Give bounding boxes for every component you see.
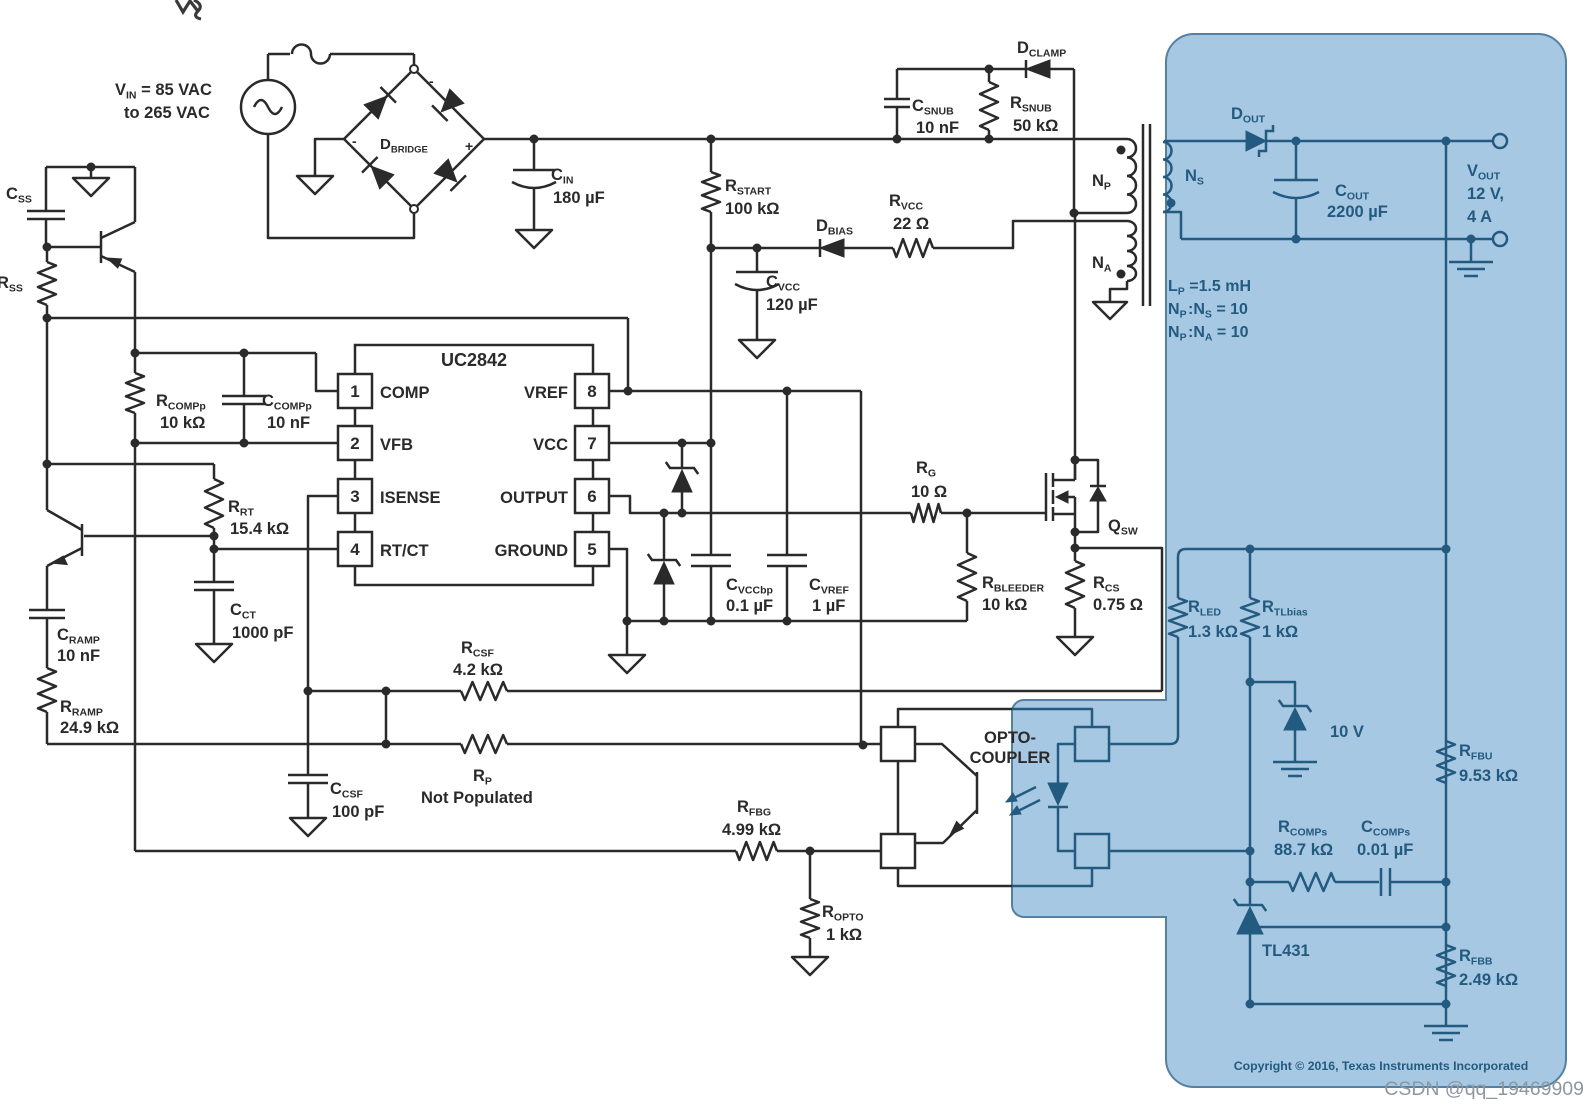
resistor RBLEEDER: [966, 513, 969, 553]
capacitor CVCC: [753, 244, 762, 253]
node gnd cvref: [783, 617, 792, 626]
transformer winding NA: [1127, 221, 1136, 281]
node zener1 bottom: [678, 509, 687, 518]
node RSTART/CVCC: [707, 244, 716, 253]
wire VREF rail to soft start: [47, 317, 628, 320]
ground CCSF: [290, 818, 326, 836]
svg-text:+: +: [465, 138, 473, 154]
phase dot NP: [1117, 146, 1126, 155]
svg-text:Not Populated: Not Populated: [421, 789, 533, 807]
light arrows: [1010, 787, 1036, 800]
optocoupler pin box LED anode: [1075, 727, 1109, 761]
diode DOUT: [1246, 131, 1266, 151]
wire NA bottom to ground: [1110, 281, 1127, 302]
node COUT top: [1292, 137, 1301, 146]
svg-text:COUPLER: COUPLER: [970, 749, 1051, 767]
ground IC: [626, 621, 629, 655]
ground CIN: [516, 230, 552, 248]
capacitor CIN: [533, 139, 536, 170]
wire collector down: [134, 272, 137, 353]
wire TL431 anode rail: [1250, 1003, 1446, 1006]
earth ground output: [1470, 239, 1473, 262]
wire COMP rail: [135, 352, 316, 355]
resistor RRAMP: [38, 668, 56, 712]
wire DCLAMP to drain: [1073, 69, 1076, 213]
svg-text:8: 8: [587, 382, 596, 401]
bridge corner node top: [410, 65, 418, 73]
svg-text:1 kΩ: 1 kΩ: [826, 926, 862, 944]
capacitor CRAMP: [46, 566, 49, 610]
node gnd pin5: [623, 617, 632, 626]
capacitor CCOMPs: [1380, 868, 1383, 896]
node CCOMPp bottom: [240, 439, 249, 448]
bridge ground: [315, 139, 344, 176]
ground RCS: [1057, 637, 1093, 655]
fuse: [292, 45, 330, 64]
bridge diode bottom-left: [371, 166, 394, 189]
wire CVCC to DBIAS: [711, 247, 820, 250]
wire comp rail: [1250, 881, 1289, 884]
svg-text:2: 2: [350, 434, 359, 453]
node ref divider: [1442, 923, 1451, 932]
wire drain: [1074, 213, 1077, 480]
node primary bottom: [1070, 209, 1079, 218]
optocoupler outline bottom right: [1012, 868, 1092, 886]
svg-text:10 kΩ: 10 kΩ: [982, 596, 1027, 614]
highlight region (secondary side): [1012, 34, 1566, 1087]
wire VREF: [610, 390, 861, 393]
node RT/CT: [210, 545, 219, 554]
node CS: [1071, 544, 1080, 553]
wire HV bus: [484, 138, 1127, 141]
resistor RSNUB: [988, 130, 991, 139]
ground soft start: [90, 167, 93, 178]
wire ground rail: [627, 620, 967, 623]
svg-text:5: 5: [587, 540, 596, 559]
transformer winding NS: [1163, 142, 1172, 212]
ground CVCC: [739, 340, 775, 358]
node anode: [1246, 1000, 1255, 1009]
bridge corner node bottom: [410, 205, 418, 213]
resistor RRT: [205, 479, 223, 528]
svg-text:4 A: 4 A: [1467, 208, 1492, 226]
wire RVCC to NA: [933, 221, 1127, 248]
capacitor CSNUB: [896, 107, 899, 139]
node ROPTO: [806, 847, 815, 856]
wire source to sense loop: [1075, 548, 1162, 691]
bridge diode bottom-right: [434, 159, 457, 182]
resistor RCS: [1066, 561, 1084, 608]
svg-text:TL431: TL431: [1262, 942, 1310, 960]
svg-text::NA = 10: :NA = 10: [1188, 324, 1249, 344]
svg-text:24.9 kΩ: 24.9 kΩ: [60, 719, 119, 737]
node RP branch left: [382, 687, 391, 696]
wire snubber top rail: [897, 68, 1026, 71]
node bus CIN: [530, 135, 539, 144]
node ramp branch: [43, 460, 52, 469]
node CCOMPp top: [240, 349, 249, 358]
resistor RFBB: [1437, 945, 1455, 986]
zener 10V: [1250, 682, 1295, 706]
resistor RFBU: [1437, 741, 1455, 783]
node VCC vertical: [707, 439, 716, 448]
svg-text:RT/CT: RT/CT: [380, 542, 429, 560]
wire RRT branch: [47, 463, 214, 466]
node gnd cvccbp: [707, 617, 716, 626]
node CVREF top: [783, 387, 792, 396]
earth ground divider: [1445, 1004, 1448, 1026]
resistor ROPTO: [809, 851, 812, 899]
wire DOUT to VOUT: [1266, 140, 1493, 143]
svg-text:COMP: COMP: [380, 384, 430, 402]
node gate/bleeder: [963, 509, 972, 518]
svg-text:9.53 kΩ: 9.53 kΩ: [1459, 767, 1518, 785]
zener D1 (VCC clamp): [681, 443, 684, 468]
optocoupler outline top left: [898, 709, 1012, 727]
ground ROPTO: [792, 957, 828, 975]
transistor Q ramp (NPN): [81, 524, 84, 556]
svg-text:VREF: VREF: [524, 384, 568, 402]
node opto collector: [859, 741, 868, 750]
wire VOUT sense vertical: [1445, 141, 1448, 1004]
svg-text:3: 3: [350, 487, 359, 506]
svg-text:180 µF: 180 µF: [553, 189, 605, 207]
svg-text:88.7 kΩ: 88.7 kΩ: [1274, 841, 1333, 859]
node RCOMPp bottom: [131, 439, 140, 448]
node base junction: [210, 532, 219, 541]
node COUT bottom: [1292, 235, 1301, 244]
svg-text:10 nF: 10 nF: [57, 647, 100, 665]
resistor RCSF: [461, 682, 507, 700]
node zener branch: [1246, 678, 1255, 687]
annotation squiggle: [176, 0, 201, 19]
svg-text::NS = 10: :NS = 10: [1188, 301, 1248, 321]
svg-text:1: 1: [350, 382, 359, 401]
diode DBIAS: [819, 239, 822, 257]
optocoupler phototransistor: [915, 744, 977, 776]
node ISENSE/CCSF: [304, 687, 313, 696]
wire VREF down to opto: [860, 391, 863, 745]
node gnd z2: [660, 617, 669, 626]
transistor QSW (MOSFET): [1045, 473, 1048, 521]
svg-text:OPTO-: OPTO-: [984, 729, 1036, 747]
transformer core: [1142, 124, 1145, 306]
ground NA: [1093, 302, 1127, 319]
node VOUT rail: [1442, 545, 1451, 554]
transformer winding NP: [1127, 139, 1136, 213]
svg-text:2200 µF: 2200 µF: [1327, 203, 1388, 221]
transistor Q soft start (PNP): [47, 246, 101, 249]
svg-text:VFB: VFB: [380, 436, 413, 454]
wire fuse to bridge top: [330, 53, 414, 56]
capacitor CCOMPp: [243, 353, 246, 396]
wire soft start down: [46, 318, 49, 464]
wire LED/TL431 top rail: [1178, 549, 1446, 598]
wire GROUND pin: [610, 549, 627, 621]
node drain diode: [1071, 456, 1080, 465]
svg-text:100 pF: 100 pF: [332, 803, 384, 821]
node CSS/RSS: [43, 243, 52, 252]
svg-text:UC2842: UC2842: [441, 350, 507, 370]
node VREF soft start: [624, 387, 633, 396]
wire CS to ISENSE rail: [308, 690, 461, 693]
svg-text:4.99 kΩ: 4.99 kΩ: [722, 821, 781, 839]
svg-text:Copyright © 2016, Texas Instru: Copyright © 2016, Texas Instruments Inco…: [1234, 1059, 1528, 1073]
node snubber RSNUB top: [985, 65, 994, 74]
wire VFB feedback rail: [135, 850, 736, 853]
node source: [1071, 528, 1080, 537]
node bus RSTART: [707, 135, 716, 144]
node top ground: [87, 163, 96, 172]
phase dot NA: [1117, 270, 1126, 279]
node divider bottom: [1442, 1000, 1451, 1009]
svg-text:CSDN @qq_19469909: CSDN @qq_19469909: [1384, 1078, 1584, 1100]
svg-text:-: -: [352, 133, 357, 149]
wire opto cathode to TL431: [1110, 850, 1250, 853]
node collector COMP: [131, 349, 140, 358]
svg-text:2.49 kΩ: 2.49 kΩ: [1459, 971, 1518, 989]
svg-text:10 nF: 10 nF: [267, 414, 310, 432]
pin boxes left: [338, 374, 372, 408]
wire NS bottom: [1163, 212, 1181, 239]
svg-text:ISENSE: ISENSE: [380, 489, 441, 507]
wire source bottom loop: [268, 134, 414, 238]
node bus CSNUB: [893, 135, 902, 144]
phase dot NS: [1167, 199, 1176, 208]
capacitor COUT: [1295, 141, 1298, 180]
wire VFB to RFBG: [134, 443, 137, 851]
svg-text:50 kΩ: 50 kΩ: [1013, 117, 1058, 135]
wire VCC: [610, 442, 711, 445]
resistor RCOMPp: [134, 353, 137, 373]
capacitor CVCCbp: [691, 554, 731, 557]
node bus RSNUB: [985, 135, 994, 144]
optocoupler pin box LED cathode: [1075, 834, 1109, 868]
svg-text:12 V,: 12 V,: [1467, 185, 1504, 203]
svg-text:6: 6: [587, 487, 596, 506]
svg-text:4.2 kΩ: 4.2 kΩ: [453, 661, 503, 679]
svg-text:GROUND: GROUND: [495, 542, 568, 560]
node RP left: [382, 740, 391, 749]
optocoupler left pin link: [897, 761, 900, 834]
resistor RLED: [1169, 598, 1187, 637]
svg-text:to 265 VAC: to 265 VAC: [124, 104, 210, 122]
resistor RCOMPs: [1289, 873, 1335, 891]
node zener1 top: [678, 439, 687, 448]
svg-text:1.3 kΩ: 1.3 kΩ: [1188, 623, 1238, 641]
svg-text:4: 4: [350, 540, 360, 559]
diode DCLAMP: [1025, 60, 1028, 78]
AC source VIN: [241, 80, 295, 134]
capacitor CSS: [45, 167, 48, 211]
svg-text:0.75 Ω: 0.75 Ω: [1093, 596, 1143, 614]
svg-text:15.4 kΩ: 15.4 kΩ: [230, 520, 289, 538]
zener D2 (gate clamp): [663, 513, 666, 560]
op-amp U1 UC2842 outline: [355, 345, 593, 585]
diode bridge DBRIDGE outline: [344, 69, 484, 209]
resistor RVCC: [893, 239, 933, 257]
node return ground: [1467, 235, 1476, 244]
node CCOMPs right: [1442, 878, 1451, 887]
capacitor CCT: [213, 549, 216, 582]
svg-text:1 µF: 1 µF: [812, 597, 845, 615]
wire ramp rail: [47, 743, 461, 746]
earth ground zener: [1273, 761, 1317, 764]
wire source top to fuse: [267, 54, 270, 80]
resistor RSS: [46, 247, 49, 262]
optocoupler outline bottom left: [898, 868, 1012, 886]
svg-text:OUTPUT: OUTPUT: [500, 489, 568, 507]
terminal VOUT-: [1493, 232, 1507, 246]
wire OUTPUT: [610, 496, 911, 513]
optocoupler pin box emitter: [881, 834, 915, 868]
wire VFB rail: [135, 442, 338, 445]
node RTLbias top: [1246, 545, 1255, 554]
resistor RP (not populated): [461, 735, 507, 753]
svg-text:22 Ω: 22 Ω: [893, 215, 929, 233]
svg-text:0.01 µF: 0.01 µF: [1357, 841, 1413, 859]
capacitor CCSF: [307, 691, 310, 775]
body diode QSW: [1075, 460, 1098, 486]
svg-text:-: -: [429, 73, 434, 89]
svg-text:1000 pF: 1000 pF: [232, 624, 293, 642]
svg-text:1 kΩ: 1 kΩ: [1262, 623, 1298, 641]
node zener2 top: [660, 509, 669, 518]
svg-text:0.1 µF: 0.1 µF: [726, 597, 773, 615]
optocoupler LED: [1058, 744, 1075, 783]
svg-text:10 nF: 10 nF: [916, 119, 959, 137]
resistor RTLbias: [1249, 549, 1252, 598]
TL431 U2: [1234, 899, 1266, 911]
optocoupler pin box collector: [881, 727, 915, 761]
wire secondary return rail: [1181, 238, 1493, 241]
svg-text:10 kΩ: 10 kΩ: [160, 414, 205, 432]
capacitor CVREF: [786, 391, 789, 555]
wire secondary top rail: [1164, 140, 1246, 143]
svg-text:10 V: 10 V: [1330, 723, 1364, 741]
terminal VOUT+: [1493, 134, 1507, 148]
bridge diode top-left: [364, 96, 387, 119]
resistor RG: [911, 504, 941, 522]
node RCOMPs: [1246, 878, 1255, 887]
pin boxes right: [575, 374, 609, 408]
optocoupler outline top right: [1012, 709, 1092, 727]
node RSS bottom: [43, 314, 52, 323]
svg-text:7: 7: [587, 434, 596, 453]
bridge diode top-right: [441, 89, 464, 112]
node opto cathode rail: [1246, 847, 1255, 856]
wire NP bottom: [1074, 212, 1127, 215]
node VOUT sense: [1442, 137, 1451, 146]
wire TL431 ref: [1259, 926, 1446, 929]
wire RT/CT pin: [214, 548, 338, 551]
wire base: [84, 535, 214, 538]
svg-text:VCC: VCC: [533, 436, 568, 454]
svg-text:100 kΩ: 100 kΩ: [725, 200, 780, 218]
wire ISENSE: [308, 496, 338, 691]
svg-text:120 µF: 120 µF: [766, 296, 818, 314]
ground CCT: [196, 644, 232, 662]
resistor RFBG: [736, 842, 777, 860]
wire RSTART to CVCCbp: [710, 248, 713, 555]
svg-text:10 Ω: 10 Ω: [911, 483, 947, 501]
resistor RSTART: [710, 139, 713, 172]
wire CSS top: [46, 166, 135, 169]
